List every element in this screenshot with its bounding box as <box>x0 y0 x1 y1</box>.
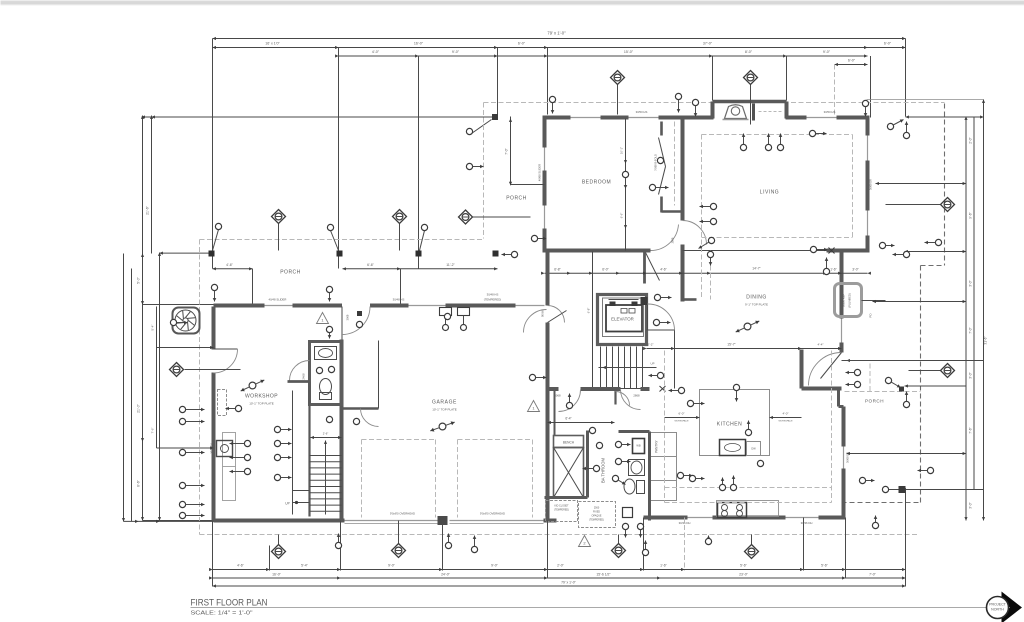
garage man door arc <box>342 307 370 335</box>
island range <box>720 440 746 456</box>
svg-text:2868: 2868 <box>633 394 640 398</box>
left vertical dimension line <box>142 116 144 521</box>
outlet at porch roof end <box>466 128 472 134</box>
outlet symbol <box>810 246 827 252</box>
porch post <box>493 251 499 257</box>
wall outlet tick <box>357 311 362 316</box>
svg-text:(TEMPERED): (TEMPERED) <box>484 298 501 302</box>
outlet <box>657 157 663 163</box>
landing line <box>293 502 310 504</box>
bottom eave overhang dashed y534 <box>200 534 920 536</box>
lobby door arc <box>648 304 675 331</box>
kitchen island <box>700 390 770 456</box>
svg-text:WORKSHOP: WORKSHOP <box>245 394 278 400</box>
svg-text:SCALE: 1/4" = 1'-0": SCALE: 1/4" = 1'-0" <box>191 611 253 617</box>
outlet symbol <box>740 134 746 151</box>
svg-text:2468: 2468 <box>302 373 306 380</box>
svg-text:79' x 1'-0": 79' x 1'-0" <box>561 581 577 585</box>
leader <box>909 370 941 372</box>
right vertical dimension lines <box>965 117 967 521</box>
svg-text:79' x 1'-0": 79' x 1'-0" <box>547 31 566 36</box>
post leader <box>213 230 219 251</box>
outlet symbol <box>846 369 861 375</box>
island workspace dims <box>665 417 700 419</box>
svg-text:7'-6": 7'-6" <box>151 428 155 434</box>
svg-text:PORCH: PORCH <box>506 196 527 202</box>
svg-text:10'-1" TOP PLATE: 10'-1" TOP PLATE <box>432 408 457 412</box>
outlet stair landing <box>326 416 332 422</box>
svg-text:30/48 HS: 30/48 HS <box>487 293 499 297</box>
small dim bath <box>548 422 615 424</box>
north wall of workshop/garage block <box>214 304 265 308</box>
garage man door leaf <box>341 307 343 340</box>
porch edge extension line <box>160 252 212 254</box>
opener outlet <box>461 325 467 331</box>
extension to workshop wall <box>143 304 214 306</box>
outlet <box>316 367 322 373</box>
svg-text:6'-0": 6'-0" <box>884 42 892 46</box>
svg-text:16'-0": 16'-0" <box>272 573 281 577</box>
outlet symbol <box>699 237 715 248</box>
outlet symbol <box>925 239 942 245</box>
left dim bracket upper <box>156 307 158 348</box>
svg-text:(TEMPERED): (TEMPERED) <box>554 509 569 512</box>
outlet symbol <box>615 458 630 464</box>
outlet symbol <box>777 134 783 151</box>
garage door openers <box>440 308 452 316</box>
svg-text:4'-6": 4'-6" <box>226 263 234 267</box>
outlet symbol <box>903 392 909 408</box>
outlet symbol <box>823 258 829 275</box>
outlet by stair door <box>353 418 359 424</box>
svg-text:UP: UP <box>285 502 289 506</box>
svg-text:GARAGE: GARAGE <box>432 400 457 406</box>
svg-text:LIVING: LIVING <box>760 190 779 196</box>
svg-text:5'-0": 5'-0" <box>137 276 141 284</box>
svg-text:6'-6": 6'-6" <box>137 479 141 487</box>
svg-text:FIXED: FIXED <box>593 511 600 514</box>
kitchen south wall <box>644 516 688 520</box>
leader from fridge <box>862 300 886 302</box>
svg-text:9'0x8'0 OVERHEAD: 9'0x8'0 OVERHEAD <box>480 512 505 516</box>
svg-text:90/68: 90/68 <box>541 310 545 317</box>
outlet symbol <box>445 534 451 549</box>
door swing arc <box>290 361 310 381</box>
svg-text:3068: 3068 <box>346 314 350 320</box>
svg-text:15'-0": 15'-0" <box>624 50 634 54</box>
left dim bracket lower <box>156 348 158 449</box>
svg-text:4'-0": 4'-0" <box>783 412 789 416</box>
svg-text:9'-0": 9'-0" <box>452 50 460 54</box>
bay right shelf dashed <box>759 111 782 113</box>
garage east wall <box>546 252 550 306</box>
extension line x547 <box>547 48 549 115</box>
outlet <box>328 366 334 372</box>
svg-text:2'-2": 2'-2" <box>648 343 654 347</box>
detector symbol with arrows <box>241 380 265 392</box>
svg-text:30x60 REF: 30x60 REF <box>842 294 846 307</box>
porch roof overhang dashed top <box>200 239 484 241</box>
diamond fixture symbol <box>941 198 955 212</box>
porch post <box>337 251 343 257</box>
bifold door leaf <box>659 167 666 195</box>
door swing arc <box>621 390 641 410</box>
svg-text:3'-0": 3'-0" <box>969 280 973 286</box>
outlet symbol <box>566 394 572 409</box>
outlet symbol <box>675 93 681 112</box>
svg-text:DW: DW <box>751 447 756 451</box>
post leader <box>420 231 425 251</box>
kitchen upper-right L wall <box>800 350 804 389</box>
outlet symbol <box>230 454 251 460</box>
bottom extension drops <box>212 521 214 587</box>
porch depth dim <box>510 117 512 186</box>
overall top dimension line 79 ft <box>213 38 906 40</box>
outlet left wall <box>179 482 204 488</box>
svg-text:11'-2": 11'-2" <box>446 263 455 267</box>
outlet symbol <box>230 440 251 446</box>
bottom diamonds <box>278 535 280 545</box>
window flag X <box>829 248 835 254</box>
svg-text:(PLUMBED): (PLUMBED) <box>848 293 852 307</box>
outlet symbol <box>335 534 341 549</box>
wall closet dashed box <box>218 390 227 416</box>
extension at bottom left <box>143 520 214 522</box>
bathroom partition <box>614 389 616 405</box>
porch ceiling dashed h <box>845 391 921 393</box>
right roof edge gray line <box>867 99 984 101</box>
door swing arc <box>616 392 630 406</box>
right porch dashed x920 <box>920 266 922 503</box>
svg-text:7'-0": 7'-0" <box>869 573 877 577</box>
svg-text:6'-0": 6'-0" <box>848 59 856 63</box>
upper overhang dashed y102 <box>484 102 945 104</box>
bay center divider <box>752 104 755 121</box>
door swing arc <box>361 409 379 427</box>
svg-text:WB: WB <box>636 444 640 448</box>
outlet symbol <box>612 475 625 484</box>
outlet symbol <box>615 441 630 447</box>
overhang dashed jog y265 <box>921 265 945 267</box>
diamond fixture symbol <box>744 71 758 85</box>
svg-text:2868: 2868 <box>671 237 675 243</box>
post leader <box>331 231 339 251</box>
outlet symbol <box>274 440 291 446</box>
svg-text:6'-6": 6'-6" <box>367 263 375 267</box>
svg-text:15'-7": 15'-7" <box>727 343 736 347</box>
extension x378 <box>378 341 380 409</box>
half bath walls <box>310 342 342 405</box>
extension line x870 <box>870 56 872 118</box>
stair rail/direction line <box>599 367 657 369</box>
svg-text:6'-6": 6'-6" <box>620 213 624 219</box>
svg-text:6'-0": 6'-0" <box>518 42 526 46</box>
outlet symbol <box>669 387 685 393</box>
svg-text:30/30 SM: 30/30 SM <box>211 443 214 453</box>
workshop door leaf <box>214 348 238 350</box>
detector symbol with arrows <box>430 421 454 431</box>
svg-text:6'-4": 6'-4" <box>565 417 571 421</box>
svg-text:5'-4": 5'-4" <box>301 564 309 568</box>
stair treads lower stair <box>600 347 602 389</box>
svg-text:PORCH: PORCH <box>280 270 301 276</box>
outlet symbol <box>637 523 643 537</box>
opener outlet <box>443 325 449 331</box>
outlet <box>757 460 763 466</box>
porch corner tick <box>899 387 904 392</box>
left stair treads <box>288 380 310 383</box>
outlet symbol <box>745 421 751 436</box>
top dimension line row 3 <box>339 55 868 57</box>
extension line x712 <box>712 56 714 101</box>
outlet symbol <box>549 96 555 113</box>
mud hall north wall <box>548 387 559 391</box>
left inner extension line <box>151 116 153 254</box>
project north symbol <box>987 592 1023 622</box>
outlet symbol <box>700 203 717 209</box>
svg-text:1'-6": 1'-6" <box>830 268 837 272</box>
outlet symbol <box>531 235 546 241</box>
svg-text:9'-0": 9'-0" <box>823 50 831 54</box>
outlet symbol <box>226 405 242 411</box>
mud block east wall <box>648 432 651 521</box>
outlet symbol <box>707 251 713 265</box>
outlet symbol <box>846 381 861 387</box>
outlet symbol <box>653 319 670 325</box>
outlet symbol <box>622 523 628 537</box>
outlet symbol <box>862 100 868 116</box>
svg-text:WORKSPACE: WORKSPACE <box>778 420 793 423</box>
bath toilet <box>624 479 635 494</box>
door swing arc <box>559 390 581 412</box>
svg-text:6'-0": 6'-0" <box>602 268 609 272</box>
right porch dashed bottom y502 <box>842 502 921 504</box>
porch ceiling dashed v <box>869 364 871 392</box>
svg-text:7'-6": 7'-6" <box>969 427 973 433</box>
left inner dimension line 2 <box>159 253 161 521</box>
diamond fixture symbol <box>392 544 406 558</box>
outlet symbol <box>809 130 826 136</box>
outlet symbol <box>466 163 483 169</box>
door swing arc <box>524 310 547 333</box>
outlet symbol <box>326 326 332 338</box>
svg-text:9'-0": 9'-0" <box>388 564 396 568</box>
svg-text:21'-6": 21'-6" <box>146 205 150 214</box>
electrical panel box <box>217 441 233 457</box>
svg-text:40/48 SLIDER: 40/48 SLIDER <box>269 298 287 302</box>
svg-text:PROJECT: PROJECT <box>989 603 1007 607</box>
svg-text:4'-6": 4'-6" <box>660 268 667 272</box>
outlet by post <box>421 224 427 230</box>
porch door arc <box>809 353 842 386</box>
outlet symbol <box>730 476 736 491</box>
outlet symbol <box>622 171 628 188</box>
svg-text:2'-0": 2'-0" <box>557 564 565 568</box>
svg-text:40/68 SLIDER: 40/68 SLIDER <box>538 164 542 181</box>
south wall workshop + garage doors <box>214 519 345 523</box>
outlet <box>589 427 595 433</box>
svg-text:9'-1" TOP PLATE: 9'-1" TOP PLATE <box>745 303 768 307</box>
svg-text:6'-0": 6'-0" <box>679 412 685 416</box>
bath toilet <box>320 379 332 395</box>
svg-text:2'-0": 2'-0" <box>969 137 973 143</box>
extension line x905 <box>905 39 907 117</box>
outlet symbol <box>654 294 671 300</box>
svg-text:2560: 2560 <box>594 507 600 510</box>
X wall marker <box>660 386 666 392</box>
svg-text:3'-0": 3'-0" <box>852 268 859 272</box>
bath sink <box>629 460 645 476</box>
outlet symbol <box>687 400 704 406</box>
porch door jamb <box>837 389 840 407</box>
garage door panel <box>450 523 544 525</box>
outlet left wall <box>179 449 204 455</box>
svg-text:21'-0": 21'-0" <box>137 403 141 412</box>
outlet porch corner <box>882 486 888 492</box>
svg-text:5'-4": 5'-4" <box>151 325 155 331</box>
elevator shaft outer wall <box>598 295 647 345</box>
outlet symbol <box>642 541 648 556</box>
outlet symbol <box>583 465 600 471</box>
garage door panel <box>345 523 441 525</box>
section marker triangle 2 <box>579 536 591 547</box>
bench closet west wall <box>554 389 556 436</box>
bench <box>554 436 584 448</box>
outlet symbol <box>326 286 332 301</box>
svg-text:KID CLOSET: KID CLOSET <box>554 505 569 508</box>
svg-text:KITCHEN: KITCHEN <box>717 422 742 428</box>
outlet left wall <box>179 501 204 507</box>
porch dimension row y268 left <box>213 268 253 270</box>
diamond fixture symbol <box>611 71 625 85</box>
svg-text:30/48 HS: 30/48 HS <box>393 298 405 302</box>
refrigerator <box>835 284 862 317</box>
svg-text:14'-7": 14'-7" <box>752 267 761 271</box>
svg-text:5'-6": 5'-6" <box>821 564 829 568</box>
kitchen top dimension <box>647 348 842 350</box>
outlet symbol <box>733 384 739 401</box>
bottom dimension row 3 <box>213 585 906 587</box>
elevator cab <box>606 305 642 332</box>
outlet symbol <box>879 242 894 248</box>
outlet symbol <box>705 536 711 545</box>
interior dimension chain across hall/dining <box>545 272 868 274</box>
diamond fixture symbol <box>941 364 955 378</box>
door arc entry <box>651 225 679 251</box>
workshop door arc <box>214 349 238 373</box>
front door arc <box>548 306 565 323</box>
front door leaf <box>548 311 567 323</box>
diamond fixture symbol <box>612 544 626 558</box>
extension x674 <box>674 331 676 389</box>
living ceiling dashed outline <box>702 134 853 136</box>
svg-text:OPAQUE: OPAQUE <box>591 515 601 518</box>
extension line x338 <box>338 48 340 269</box>
svg-text:10'-1" TOP PLATE: 10'-1" TOP PLATE <box>249 402 274 406</box>
leader <box>886 204 941 206</box>
west wall of workshop <box>212 307 216 350</box>
bifold door leaf <box>659 138 666 167</box>
closet dashed rod <box>674 122 676 206</box>
outlet symbol <box>274 474 291 480</box>
WB box <box>633 439 645 454</box>
svg-text:15'-6 1/2": 15'-6 1/2" <box>596 573 611 577</box>
extension line x786 <box>786 56 788 101</box>
top dimension line row 2 <box>213 47 906 49</box>
leader to junction <box>472 120 492 134</box>
outlet symbol <box>700 218 717 224</box>
overhang dashed vertical x483 <box>483 103 485 239</box>
right porch floor edge <box>842 360 921 362</box>
kitchen ceiling dashed <box>664 351 666 503</box>
porch post <box>416 251 422 257</box>
svg-text:PORCH: PORCH <box>865 399 884 404</box>
svg-text:(TEMPERED): (TEMPERED) <box>589 519 604 522</box>
extension line x418 <box>418 56 420 269</box>
extension line x212 <box>212 39 214 269</box>
outlet symbol <box>765 134 771 151</box>
svg-text:30/50 HS: 30/50 HS <box>824 110 836 114</box>
stair rail wall <box>292 391 294 515</box>
outlet symbol <box>918 467 934 473</box>
svg-text:16' x 1'0": 16' x 1'0" <box>265 42 280 46</box>
north wall of bedroom/living block <box>545 116 571 120</box>
pantry shelves <box>651 433 677 457</box>
chimney bay walls <box>711 102 715 119</box>
svg-text:UP: UP <box>651 362 655 366</box>
outlet symbol <box>719 478 725 491</box>
outlet symbol <box>529 374 546 380</box>
outlet symbol <box>274 426 291 432</box>
outlet left wall <box>179 418 204 424</box>
lower closet boxes <box>546 501 578 522</box>
svg-text:2'-6": 2'-6" <box>323 432 329 436</box>
extra left dim verticals <box>123 254 125 522</box>
bath sink <box>315 347 337 360</box>
outlet left wall <box>179 512 204 518</box>
diamond fixture symbol <box>170 363 184 377</box>
junction square at end of roof line <box>492 114 498 120</box>
outlet symbol <box>211 284 217 301</box>
section marker triangle 1 <box>317 313 329 324</box>
svg-text:4'-6": 4'-6" <box>237 564 245 568</box>
outlet symbol <box>230 468 251 474</box>
outlet symbol <box>893 251 910 257</box>
extension dashed drop at x=834 <box>834 65 836 118</box>
outlet symbol <box>677 472 692 478</box>
outlet symbol <box>903 122 909 139</box>
garage parking stall dashed outlines <box>361 440 363 518</box>
outlet symbol <box>859 477 874 483</box>
living south wall segment <box>827 249 868 253</box>
door leaf <box>646 253 660 281</box>
svg-text:BA THROOM: BA THROOM <box>601 457 606 483</box>
svg-text:NORTH: NORTH <box>991 608 1004 612</box>
door swing arc <box>683 221 707 245</box>
outlet by fan <box>170 319 187 325</box>
fireplace fixture <box>725 105 747 119</box>
svg-text:ELEVATOR: ELEVATOR <box>611 317 634 322</box>
outlet symbol <box>471 536 477 553</box>
top dimension line row 4 <box>835 64 868 66</box>
outlet symbol <box>885 377 900 387</box>
svg-text:BENCH: BENCH <box>563 441 575 445</box>
upper porch diamonds <box>278 224 280 251</box>
outlet <box>444 313 450 319</box>
svg-text:1'-6": 1'-6" <box>660 564 668 568</box>
svg-text:8'-0": 8'-0" <box>745 50 753 54</box>
outlet symbol <box>502 251 518 257</box>
